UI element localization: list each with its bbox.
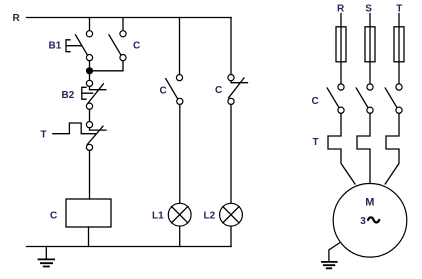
motor M <box>333 184 407 258</box>
wire bottom rail <box>27 246 232 248</box>
svg-text:C: C <box>133 41 140 52</box>
wire L2 branch drop <box>230 18 232 75</box>
ground (control) <box>38 247 55 267</box>
svg-text:L1: L1 <box>152 211 164 222</box>
contact T (thermal NC) <box>41 122 107 151</box>
svg-text:M: M <box>365 197 374 209</box>
wire phase S drop <box>369 14 371 84</box>
wire C3 to lamp L2 <box>230 105 232 204</box>
contact C (NO, lamp L1 branch) <box>160 75 183 105</box>
thermal element pole 1 <box>328 113 355 184</box>
wire L1 branch drop <box>179 18 181 75</box>
contact C pole 3 <box>385 84 402 113</box>
ground (motor frame) <box>321 243 339 268</box>
contact C pole 1 <box>327 84 344 113</box>
svg-text:S: S <box>365 4 372 15</box>
svg-text:3: 3 <box>360 216 366 227</box>
svg-text:L2: L2 <box>204 211 216 222</box>
junction node dot <box>86 67 93 74</box>
fuse F2 <box>365 27 375 62</box>
wire phase T drop <box>398 14 400 84</box>
contact C (seal-in NO) <box>109 31 140 61</box>
svg-text:C: C <box>312 96 319 107</box>
svg-text:C: C <box>160 86 167 97</box>
wire C1 to junction <box>92 61 124 71</box>
wire phase R drop <box>340 14 342 84</box>
pushbutton B2 (NC stop) <box>62 80 106 109</box>
wire T to coil <box>89 151 91 200</box>
contact C pole 2 <box>356 84 373 113</box>
contact C (NC, lamp L2 branch) <box>215 75 248 105</box>
fuse F3 <box>394 27 404 62</box>
wire coil to bottom rail <box>88 227 90 247</box>
svg-text:R: R <box>13 13 21 24</box>
fuse F1 <box>336 27 346 62</box>
svg-text:C: C <box>215 85 222 96</box>
svg-text:T: T <box>41 129 47 140</box>
lamp L1 <box>152 203 191 226</box>
pushbutton B1 (NO start) <box>49 31 93 61</box>
coil C (contactor coil) <box>50 199 111 227</box>
wire C2 to lamp L1 <box>179 105 181 204</box>
wire B2 to T <box>89 109 91 121</box>
wire C1 branch drop <box>122 18 124 31</box>
wire lamp L2 to bottom rail <box>230 226 232 246</box>
wire B1 to junction <box>89 61 91 81</box>
wire top rail R <box>27 17 232 19</box>
wire B1 branch drop <box>89 18 91 31</box>
svg-text:C: C <box>50 211 57 222</box>
svg-text:B1: B1 <box>49 41 62 52</box>
lamp L2 <box>204 203 243 226</box>
svg-text:B2: B2 <box>62 90 75 101</box>
svg-text:T: T <box>313 137 319 148</box>
thermal element pole 2 <box>357 113 370 183</box>
thermal element pole 3 <box>385 113 399 184</box>
wire lamp L1 to bottom rail <box>179 226 181 246</box>
